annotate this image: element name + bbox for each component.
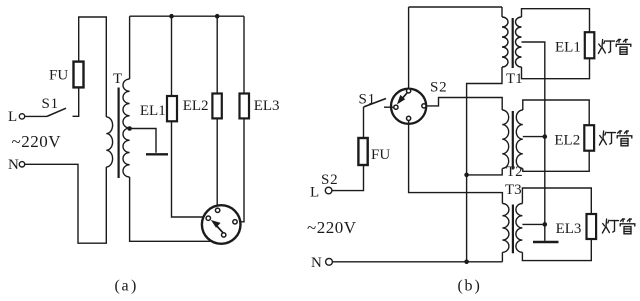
- junction dot EL1 bus (a): [169, 14, 174, 19]
- wire bottom bus N (b): [333, 261, 503, 263]
- wire secondary bottom to selector (a): [130, 177, 212, 241]
- wire T3 secondary tap: [522, 223, 544, 225]
- junction dot N bus: [464, 260, 469, 265]
- lamp EL2 (a): [212, 94, 221, 119]
- transformer T3 secondary winding: [516, 204, 522, 253]
- svg-text:a: a: [122, 278, 129, 295]
- lamp EL1 (b): [585, 32, 595, 58]
- selector contact top (a): [215, 208, 219, 212]
- S2 wiper arrow: [397, 93, 407, 105]
- switch S1 blade (a): [47, 108, 66, 116]
- wire EL3 return to T3 secondary bottom: [522, 239, 591, 261]
- wire to lamp EL1 (a): [171, 16, 173, 96]
- switch S1 blade (b): [364, 99, 387, 108]
- ground bar (a): [146, 153, 168, 155]
- svg-text:): ): [131, 278, 136, 295]
- svg-text:~220V: ~220V: [12, 132, 62, 151]
- ground bar (b): [533, 241, 559, 243]
- junction dot T3 tap: [543, 222, 548, 227]
- terminal L (a): [19, 114, 24, 119]
- S2 contact bottom: [407, 116, 411, 120]
- wire N to T primary bottom (a): [25, 164, 106, 243]
- wire bus to selector S2 top (b): [408, 7, 410, 89]
- svg-text:FU: FU: [371, 147, 390, 163]
- wire T1 tap down the cascade: [522, 42, 545, 224]
- selector switch body (a): [202, 205, 241, 244]
- wire bus to T1 primary (b): [501, 7, 503, 17]
- svg-text:EL3: EL3: [254, 98, 280, 114]
- lamp EL3 (b): [587, 214, 597, 239]
- wire to lamp EL3 (a): [243, 16, 245, 93]
- lamp EL1 (a): [167, 96, 177, 121]
- svg-text:b: b: [465, 278, 473, 295]
- svg-text:EL2: EL2: [554, 133, 580, 149]
- selector switch S2 body: [391, 89, 426, 124]
- S2 contact right: [422, 104, 426, 108]
- svg-text:N: N: [311, 255, 322, 271]
- transformer T1 secondary winding: [516, 17, 522, 67]
- svg-text:L: L: [310, 185, 319, 201]
- svg-text:T: T: [113, 71, 122, 87]
- transformer T3 primary winding: [502, 204, 509, 253]
- svg-text:T3: T3: [505, 182, 522, 198]
- wire to lamp EL2 (a): [216, 16, 218, 93]
- transformer T1 core: [512, 18, 514, 68]
- wire L to S1 (a): [25, 115, 47, 117]
- transformer T2 secondary winding: [516, 110, 523, 168]
- selector wiper arrow (a): [211, 220, 223, 233]
- terminal N (a): [19, 162, 24, 167]
- wire T3 primary to N bus: [501, 252, 503, 261]
- wire T2 secondary tap: [523, 136, 545, 138]
- svg-text:EL3: EL3: [556, 221, 582, 237]
- fuse FU (b): [358, 138, 367, 165]
- svg-text:EL1: EL1: [140, 103, 166, 119]
- wire top bus (b): [409, 6, 502, 8]
- junction dot secondary tap (a): [127, 126, 132, 131]
- wire S2 bottom contact to T3 primary: [409, 121, 503, 204]
- label lamp-tube (EL3): [602, 219, 634, 234]
- transformer T1 primary winding: [502, 17, 508, 67]
- selector contact bottom (a): [222, 233, 226, 237]
- wire S1 via FU to T primary top (a): [73, 17, 107, 117]
- wire S2 right contact to T2 primary: [426, 98, 502, 111]
- svg-text:S1: S1: [42, 96, 59, 112]
- svg-text:EL1: EL1: [555, 40, 581, 56]
- wire EL3 to selector right (a): [240, 118, 244, 221]
- svg-text:~220V: ~220V: [307, 218, 357, 237]
- wire top bus (a): [130, 15, 244, 17]
- transformer T core (a): [117, 88, 119, 179]
- wire S1 via FU to terminal L (b): [332, 107, 364, 191]
- wire T1 primary return: [467, 67, 502, 262]
- transformer T3 core: [512, 205, 514, 254]
- junction dot primary returns: [464, 173, 469, 178]
- S2 contact top: [407, 89, 411, 93]
- wire tap to ground (a): [130, 129, 156, 153]
- svg-text:EL2: EL2: [183, 98, 209, 114]
- wire tap to ground (b): [544, 224, 546, 240]
- transformer T2 primary winding: [502, 110, 509, 168]
- svg-text:): ): [475, 278, 480, 295]
- transformer T2 core: [512, 111, 514, 170]
- terminal L (b): [325, 187, 332, 194]
- svg-text:L: L: [8, 109, 17, 125]
- transformer T primary winding (a): [106, 117, 112, 167]
- junction dot T2 tap: [543, 134, 548, 139]
- wire T3 secondary top to EL3: [522, 188, 591, 214]
- svg-text:FU: FU: [49, 68, 68, 84]
- wire EL1 return to T1 secondary bottom: [522, 58, 590, 78]
- wire EL2 return to T2 secondary bottom: [523, 151, 589, 172]
- wire EL1 to selector left (a): [172, 121, 204, 217]
- wire secondary top (a): [129, 16, 131, 79]
- svg-text:T2: T2: [506, 164, 523, 180]
- selector contact right (a): [233, 220, 237, 224]
- wire T2 primary return: [467, 169, 503, 175]
- svg-text:(: (: [115, 278, 120, 295]
- svg-text:S2: S2: [321, 172, 338, 188]
- transformer T secondary winding (a): [123, 79, 130, 177]
- S2 contact left: [394, 105, 398, 109]
- junction dot EL2 bus (a): [215, 14, 220, 19]
- selector contact left (a): [206, 216, 210, 220]
- svg-text:N: N: [8, 157, 19, 173]
- svg-text:T1: T1: [506, 71, 523, 87]
- lamp EL3 (a): [240, 94, 250, 119]
- wire EL2 to selector top (a): [216, 118, 218, 205]
- wire S2 left contact stub: [384, 106, 394, 108]
- label lamp-tube (EL2): [599, 131, 631, 146]
- wire T1 secondary top to EL1: [522, 9, 590, 33]
- svg-text:S2: S2: [430, 80, 447, 96]
- label lamp-tube (EL1): [598, 39, 630, 54]
- svg-text:(: (: [458, 278, 463, 295]
- wire T2 secondary top to EL2: [523, 100, 589, 125]
- terminal N (b): [326, 258, 333, 265]
- lamp EL2 (b): [584, 125, 594, 151]
- fuse FU (a): [74, 62, 84, 88]
